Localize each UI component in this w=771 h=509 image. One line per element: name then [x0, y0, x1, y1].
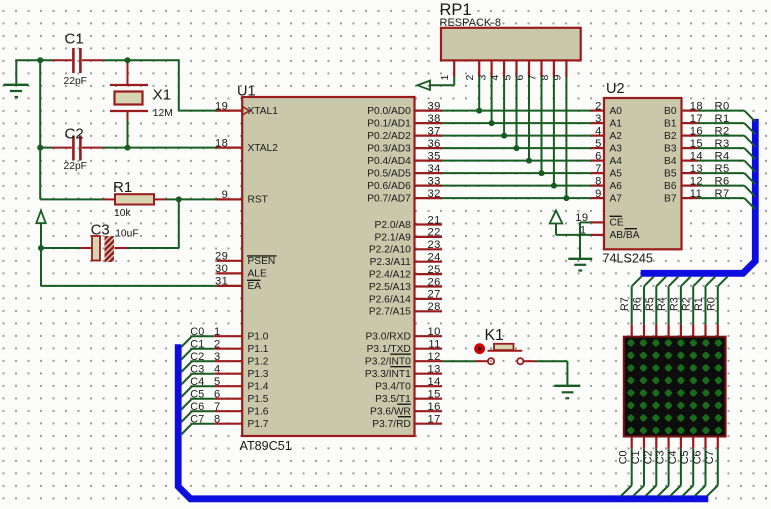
svg-text:6: 6 — [214, 389, 221, 401]
svg-text:A5: A5 — [610, 168, 623, 179]
svg-text:9: 9 — [595, 188, 602, 200]
svg-text:3: 3 — [595, 113, 602, 125]
svg-text:P3.4/T0: P3.4/T0 — [375, 382, 411, 393]
svg-text:29: 29 — [215, 251, 228, 263]
svg-text:R5: R5 — [715, 163, 730, 175]
svg-text:3: 3 — [214, 351, 221, 363]
svg-text:P3.2/INT0: P3.2/INT0 — [365, 357, 411, 368]
svg-text:R7: R7 — [619, 297, 631, 311]
svg-text:28: 28 — [428, 301, 441, 313]
svg-text:27: 27 — [428, 289, 441, 301]
svg-text:C7: C7 — [190, 414, 204, 426]
svg-text:A6: A6 — [610, 181, 623, 192]
svg-text:11: 11 — [428, 339, 440, 351]
svg-text:74LS245: 74LS245 — [603, 252, 653, 266]
svg-text:1: 1 — [214, 326, 221, 338]
svg-text:R1: R1 — [715, 113, 730, 125]
svg-text:C0: C0 — [618, 450, 630, 464]
svg-text:35: 35 — [428, 150, 441, 162]
svg-text:P1.1: P1.1 — [248, 344, 269, 355]
svg-text:26: 26 — [428, 276, 441, 288]
svg-text:P3.3/INT1: P3.3/INT1 — [365, 369, 411, 380]
svg-text:14: 14 — [428, 376, 441, 388]
svg-text:22: 22 — [428, 227, 441, 239]
svg-text:P0.6/AD6: P0.6/AD6 — [367, 181, 411, 192]
svg-text:A4: A4 — [610, 156, 623, 167]
svg-text:P1.0: P1.0 — [248, 332, 269, 343]
svg-text:R6: R6 — [715, 175, 730, 187]
svg-text:15: 15 — [690, 138, 703, 150]
svg-text:17: 17 — [428, 414, 441, 426]
svg-text:P1.4: P1.4 — [248, 382, 269, 393]
svg-text:P2.5/A13: P2.5/A13 — [369, 282, 411, 293]
svg-text:B1: B1 — [664, 118, 677, 129]
svg-text:2: 2 — [595, 100, 602, 112]
svg-text:B3: B3 — [664, 143, 677, 154]
svg-text:P2.4/A12: P2.4/A12 — [369, 270, 411, 281]
svg-text:C1: C1 — [190, 339, 204, 351]
svg-text:13: 13 — [428, 364, 441, 376]
svg-text:P0.2/AD2: P0.2/AD2 — [367, 131, 411, 142]
svg-text:A3: A3 — [610, 143, 623, 154]
svg-text:13: 13 — [690, 163, 703, 175]
svg-text:23: 23 — [428, 239, 441, 251]
svg-text:10uF: 10uF — [115, 229, 138, 240]
svg-text:R2: R2 — [681, 297, 693, 311]
svg-text:B6: B6 — [664, 181, 677, 192]
svg-text:18: 18 — [215, 137, 228, 149]
svg-text:C4: C4 — [190, 376, 204, 388]
svg-text:C2: C2 — [65, 126, 84, 143]
svg-text:U2: U2 — [606, 81, 625, 97]
svg-text:A0: A0 — [610, 106, 623, 117]
svg-text:12: 12 — [428, 351, 441, 363]
svg-text:4: 4 — [214, 364, 221, 376]
svg-text:10: 10 — [428, 326, 441, 338]
svg-text:ALE: ALE — [248, 269, 267, 280]
svg-text:22pF: 22pF — [64, 161, 87, 172]
svg-text:P1.2: P1.2 — [248, 357, 269, 368]
svg-text:36: 36 — [428, 138, 441, 150]
svg-text:P2.0/A8: P2.0/A8 — [375, 220, 412, 231]
svg-text:A7: A7 — [610, 193, 623, 204]
svg-text:C3: C3 — [655, 450, 667, 464]
svg-text:C4: C4 — [667, 450, 679, 464]
svg-text:EA: EA — [248, 281, 262, 292]
svg-text:9: 9 — [222, 189, 229, 201]
svg-text:R4: R4 — [715, 150, 730, 162]
svg-text:R4: R4 — [656, 297, 668, 311]
svg-text:B0: B0 — [664, 106, 677, 117]
svg-text:R7: R7 — [715, 188, 730, 200]
svg-text:C2: C2 — [190, 351, 204, 363]
svg-text:CE: CE — [610, 218, 624, 229]
svg-text:C5: C5 — [679, 450, 691, 464]
svg-text:12M: 12M — [153, 108, 173, 119]
svg-text:P3.6/WR: P3.6/WR — [370, 407, 411, 418]
svg-text:R1: R1 — [113, 179, 132, 196]
svg-text:14: 14 — [690, 150, 703, 162]
svg-text:11: 11 — [690, 188, 702, 200]
svg-text:19: 19 — [215, 100, 228, 112]
svg-text:C7: C7 — [704, 450, 716, 464]
svg-text:R2: R2 — [715, 125, 730, 137]
svg-text:25: 25 — [428, 264, 441, 276]
svg-text:P0.1/AD1: P0.1/AD1 — [367, 119, 411, 130]
svg-text:P2.3/A11: P2.3/A11 — [370, 257, 411, 268]
svg-text:2: 2 — [214, 339, 221, 351]
svg-text:P0.3/AD3: P0.3/AD3 — [367, 144, 411, 155]
svg-text:33: 33 — [428, 175, 441, 187]
svg-text:P2.6/A14: P2.6/A14 — [369, 294, 411, 305]
svg-text:P1.5: P1.5 — [248, 394, 269, 405]
svg-text:AB/BA: AB/BA — [610, 230, 640, 241]
svg-text:PSEN: PSEN — [248, 256, 276, 267]
svg-text:38: 38 — [428, 113, 441, 125]
svg-text:R5: R5 — [644, 297, 656, 311]
svg-text:7: 7 — [214, 401, 221, 413]
svg-text:X1: X1 — [153, 87, 171, 104]
svg-text:P0.7/AD7: P0.7/AD7 — [367, 194, 411, 205]
svg-text:12: 12 — [690, 175, 703, 187]
svg-text:C5: C5 — [190, 389, 204, 401]
svg-text:2: 2 — [464, 75, 476, 81]
svg-text:P2.7/A15: P2.7/A15 — [369, 307, 411, 318]
svg-text:C3: C3 — [91, 222, 110, 239]
svg-text:10k: 10k — [114, 208, 131, 219]
svg-text:P1.6: P1.6 — [248, 407, 269, 418]
svg-text:P2.1/A9: P2.1/A9 — [375, 232, 412, 243]
svg-text:K1: K1 — [485, 327, 505, 344]
svg-text:C0: C0 — [190, 326, 204, 338]
svg-text:XTAL1: XTAL1 — [248, 106, 279, 117]
svg-text:18: 18 — [690, 100, 703, 112]
svg-text:R3: R3 — [715, 138, 730, 150]
svg-text:B2: B2 — [664, 131, 677, 142]
svg-text:B5: B5 — [664, 168, 677, 179]
svg-text:R0: R0 — [715, 100, 730, 112]
svg-text:P3.1/TXD: P3.1/TXD — [367, 344, 411, 355]
svg-text:C1: C1 — [65, 31, 84, 48]
svg-text:5: 5 — [214, 376, 221, 388]
svg-text:1: 1 — [439, 75, 451, 81]
svg-text:R1: R1 — [693, 297, 705, 311]
svg-text:A2: A2 — [610, 131, 623, 142]
svg-text:P3.0/RXD: P3.0/RXD — [366, 332, 411, 343]
svg-text:C2: C2 — [642, 450, 654, 464]
svg-text:32: 32 — [428, 188, 441, 200]
svg-text:37: 37 — [428, 125, 441, 137]
svg-text:R3: R3 — [668, 297, 680, 311]
svg-text:U1: U1 — [237, 84, 256, 100]
svg-text:24: 24 — [428, 252, 441, 264]
svg-text:15: 15 — [428, 389, 441, 401]
svg-text:16: 16 — [428, 401, 441, 413]
svg-text:RESPACK-8: RESPACK-8 — [440, 17, 502, 29]
svg-text:B4: B4 — [664, 156, 677, 167]
svg-text:C3: C3 — [190, 364, 204, 376]
svg-text:P1.7: P1.7 — [248, 419, 269, 430]
svg-text:AT89C51: AT89C51 — [240, 439, 292, 453]
svg-text:RST: RST — [248, 195, 268, 206]
svg-text:P0.0/AD0: P0.0/AD0 — [367, 106, 411, 117]
svg-text:5: 5 — [595, 138, 602, 150]
svg-text:34: 34 — [428, 163, 441, 175]
svg-text:22pF: 22pF — [64, 76, 87, 87]
svg-text:B7: B7 — [664, 193, 677, 204]
svg-text:XTAL2: XTAL2 — [248, 143, 279, 154]
svg-text:R0: R0 — [705, 297, 717, 311]
svg-text:C6: C6 — [692, 450, 704, 464]
svg-text:39: 39 — [428, 100, 441, 112]
svg-text:30: 30 — [215, 263, 228, 275]
svg-text:P2.2/A10: P2.2/A10 — [369, 245, 411, 256]
svg-text:8: 8 — [595, 175, 602, 187]
svg-text:16: 16 — [690, 125, 703, 137]
svg-text:19: 19 — [575, 212, 588, 224]
svg-text:6: 6 — [595, 150, 602, 162]
svg-text:31: 31 — [215, 276, 228, 288]
svg-text:4: 4 — [595, 125, 602, 137]
svg-text:C1: C1 — [630, 450, 642, 464]
svg-text:P0.4/AD4: P0.4/AD4 — [367, 156, 411, 167]
svg-text:7: 7 — [595, 163, 602, 175]
svg-text:R6: R6 — [632, 297, 644, 311]
svg-text:P3.7/RD: P3.7/RD — [372, 419, 411, 430]
svg-text:P3.5/T1: P3.5/T1 — [375, 394, 411, 405]
svg-text:P0.5/AD5: P0.5/AD5 — [367, 169, 411, 180]
svg-text:1: 1 — [580, 225, 587, 237]
svg-text:8: 8 — [214, 414, 221, 426]
svg-text:17: 17 — [690, 113, 703, 125]
svg-text:21: 21 — [428, 214, 441, 226]
svg-text:C6: C6 — [190, 401, 204, 413]
svg-text:P1.3: P1.3 — [248, 369, 269, 380]
svg-text:A1: A1 — [610, 118, 623, 129]
